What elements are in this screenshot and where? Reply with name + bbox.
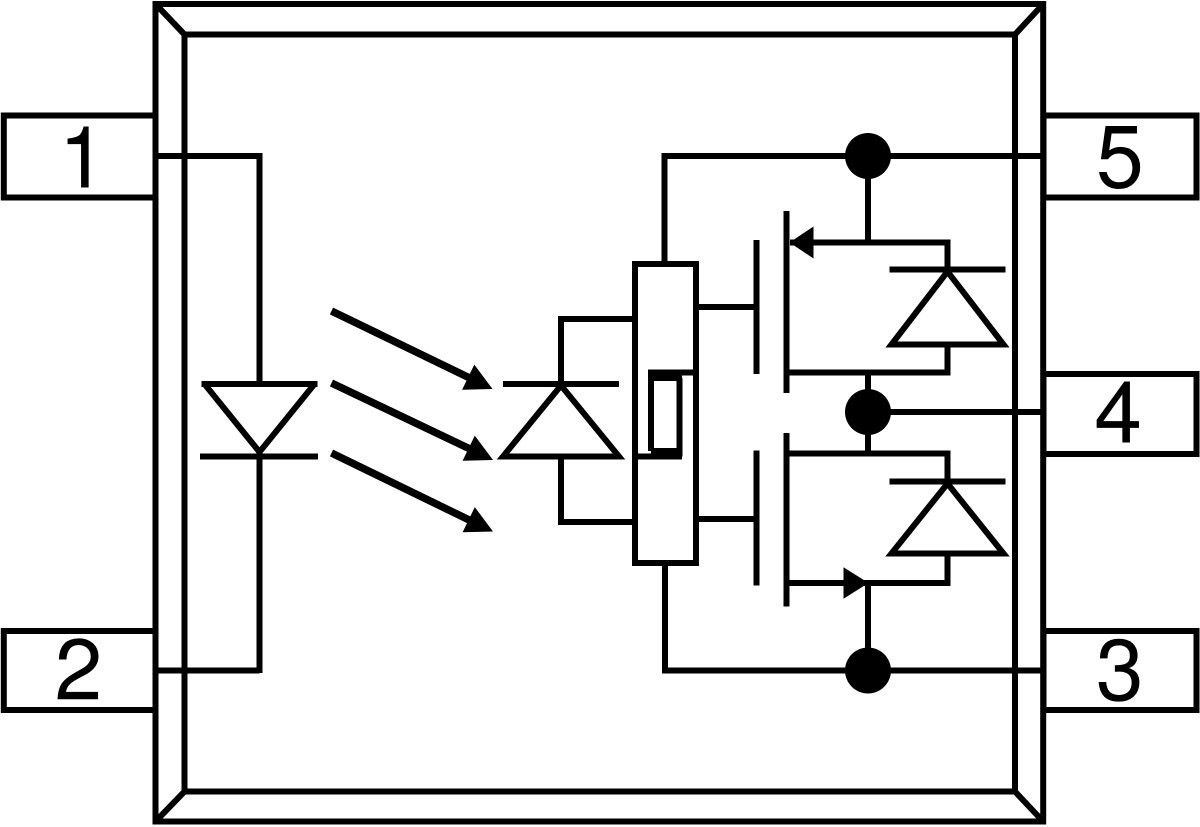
package outline inner xyxy=(185,35,1016,792)
LED D1 triangle xyxy=(205,384,315,452)
package outline outer xyxy=(156,4,1044,822)
bottom rail to pin 3 xyxy=(662,668,1046,674)
package corner bevel top-left xyxy=(156,4,185,35)
wire LED anode vertical xyxy=(257,153,263,384)
driver block U1 xyxy=(635,264,696,563)
pin 3 label xyxy=(1099,639,1140,702)
package corner bevel bottom-right xyxy=(1015,792,1043,822)
Q2 source stub xyxy=(787,580,951,586)
wire PD cathode to driver xyxy=(561,319,638,384)
driver resistor bottom lead xyxy=(635,454,682,460)
LED D1 anode bar xyxy=(202,381,318,387)
wire Q2 source to bottom dot xyxy=(865,583,871,671)
wire Q2 drain to D3 cathode xyxy=(945,454,951,483)
light arrow 1 head xyxy=(462,365,492,390)
light arrow 2 shaft xyxy=(332,383,480,454)
wire pin2 to LED cathode xyxy=(153,668,260,674)
package corner bevel bottom-left xyxy=(156,792,185,822)
Q1 drain stub xyxy=(787,370,951,376)
pin 5 label xyxy=(1099,126,1140,189)
pin 2 label xyxy=(57,638,98,699)
driver resistor bottom edge xyxy=(651,448,682,454)
wire top dot to Q1 source xyxy=(865,156,871,243)
body diode D3 cathode bar xyxy=(890,479,1006,485)
photodiode PD cathode bar xyxy=(503,381,619,387)
wire driver to bottom rail xyxy=(662,563,668,671)
driver resistor right side xyxy=(677,378,683,457)
driver resistor top lead xyxy=(648,370,696,376)
wire LED cathode vertical xyxy=(257,452,263,673)
pin 2 terminal box xyxy=(4,631,156,710)
body diode D3 triangle xyxy=(892,484,1004,554)
Q2 drain stub xyxy=(787,451,951,457)
wire D3 anode to Q2 source xyxy=(945,554,951,584)
pin 4 label xyxy=(1097,382,1139,443)
body diode D2 cathode bar xyxy=(890,267,1006,273)
Q2 gate bar xyxy=(754,451,760,586)
wire pin4 node to package xyxy=(868,409,1046,415)
Q1 channel bar xyxy=(784,211,790,393)
wire pin1 to LED anode xyxy=(153,153,260,159)
junction dot top rail xyxy=(845,133,891,179)
LED D1 cathode bar xyxy=(200,454,318,460)
wire driver to top rail xyxy=(662,156,668,264)
photodiode PD triangle xyxy=(503,386,619,457)
light arrow 3 head xyxy=(463,507,493,532)
light arrow 3 shaft xyxy=(332,453,480,525)
Q1 gate bar xyxy=(754,240,760,374)
pin 4 terminal box xyxy=(1044,374,1197,454)
Q1 body arrow xyxy=(790,227,814,259)
package corner bevel top-right xyxy=(1015,4,1043,35)
pin 5 terminal box xyxy=(1044,116,1197,198)
Q2 body arrow xyxy=(844,567,869,598)
Q1 gate wire xyxy=(696,304,756,310)
Q1 source stub xyxy=(790,240,951,246)
light arrow 2 head xyxy=(463,436,493,461)
wire PD anode to driver xyxy=(561,457,638,523)
junction dot pin4 node xyxy=(845,389,891,435)
pin 1 label xyxy=(68,127,89,188)
driver resistor top edge xyxy=(651,375,682,381)
light arrow 1 shaft xyxy=(332,311,480,383)
pin 3 terminal box xyxy=(1044,631,1197,710)
wire Q1 drain to pin4 node xyxy=(865,373,871,413)
driver resistor left side xyxy=(648,370,654,452)
Q2 channel bar xyxy=(784,433,790,607)
wire Q1 source to D2 cathode xyxy=(945,243,951,271)
wire D2 anode to Q1 drain xyxy=(945,345,951,373)
wire pin4 node to Q2 drain xyxy=(865,412,871,454)
body diode D2 triangle xyxy=(892,272,1004,345)
pin 1 terminal box xyxy=(4,116,156,198)
junction dot bottom rail xyxy=(845,648,891,694)
Q2 gate wire xyxy=(696,516,756,522)
top rail to pin 5 xyxy=(662,153,1047,159)
